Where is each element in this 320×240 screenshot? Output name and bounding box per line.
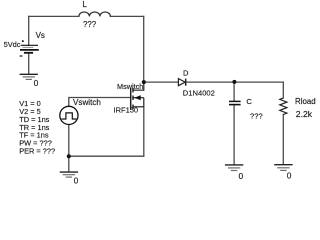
MOSFET bulk arrow [134, 95, 140, 100]
MOSFET Mswitch [131, 82, 144, 109]
battery plate long top [21, 44, 38, 46]
svg-text:Mswitch: Mswitch [117, 82, 143, 91]
battery plate short bottom [24, 52, 33, 54]
diode triangle [178, 79, 185, 86]
svg-text:D: D [183, 68, 189, 77]
wire MOSFET source down to rail [143, 107, 145, 156]
svg-text:IRF150: IRF150 [114, 106, 139, 115]
svg-text:Rload: Rload [295, 97, 316, 106]
channel segment drain [132, 88, 134, 92]
battery minus dash [20, 55, 23, 57]
voltage source Vs (battery) [20, 40, 39, 56]
inductor L coil [79, 12, 111, 16]
drain stub [133, 82, 144, 90]
gate bar [130, 88, 132, 109]
wire top rail left segment [29, 15, 79, 17]
svg-text:Vs: Vs [36, 31, 45, 40]
wire top rail right segment [110, 15, 143, 17]
battery plate long lower [20, 49, 39, 51]
diode cathode bar [185, 79, 187, 86]
svg-text:Vswitch: Vswitch [73, 98, 101, 107]
source stub [133, 106, 144, 108]
wire resistor bottom lead [282, 115, 284, 164]
junction node at rail [67, 154, 71, 158]
ground below capacitor [225, 165, 243, 171]
wire diode cathode to cap node [186, 81, 235, 83]
svg-text:???: ??? [250, 112, 263, 121]
ground below Vs [20, 74, 38, 79]
cap plate bottom [229, 104, 241, 106]
junction node at drain [142, 80, 146, 84]
ground below Vswitch [60, 172, 78, 177]
battery plus dot [22, 40, 24, 42]
svg-text:5Vdc: 5Vdc [4, 40, 21, 49]
svg-text:0: 0 [239, 171, 244, 181]
capacitor C [229, 101, 241, 104]
wire bottom rail [69, 155, 144, 157]
Vswitch parameter list [19, 99, 55, 155]
battery plate short gray [23, 46, 34, 48]
wire ground stub below Vswitch [68, 156, 70, 171]
pulse source Vswitch [60, 106, 78, 124]
channel segment source [132, 105, 134, 109]
junction node at cap [232, 80, 236, 84]
pulse waveform glyph [62, 113, 77, 119]
svg-text:C: C [246, 97, 252, 106]
svg-text:L: L [82, 0, 87, 9]
wire node to diode anode [144, 81, 179, 83]
wire Vswitch top to gate [69, 98, 131, 107]
svg-text:???: ??? [83, 20, 97, 29]
bulk stub [133, 97, 144, 99]
svg-text:D1N4002: D1N4002 [183, 89, 215, 98]
wire capacitor top lead [233, 82, 235, 101]
svg-text:0: 0 [287, 171, 292, 181]
svg-text:PER = ???: PER = ??? [19, 146, 55, 155]
wire Vswitch bottom to rail [68, 125, 70, 157]
resistor Rload zigzag [280, 98, 287, 115]
wire top-right vertical (down to drain node) [143, 16, 145, 82]
wire cap node to resistor corner [234, 81, 283, 83]
wire capacitor bottom lead [233, 105, 235, 164]
svg-text:0: 0 [34, 78, 39, 88]
wire resistor top lead [282, 82, 284, 98]
bulk-source tie [143, 98, 145, 107]
cap plate top [229, 100, 241, 102]
wire battery negative stub to ground [28, 53, 30, 74]
ground below resistor [274, 165, 292, 171]
channel segment bulk [132, 96, 134, 100]
wire top-left vertical (Vs to top rail) [28, 16, 30, 45]
svg-text:2.2k: 2.2k [296, 109, 313, 119]
svg-text:0: 0 [74, 175, 79, 185]
